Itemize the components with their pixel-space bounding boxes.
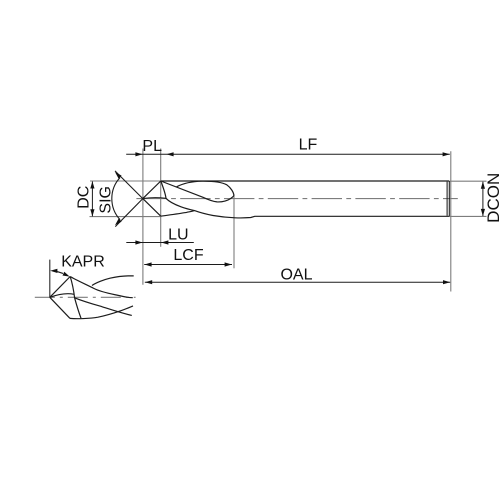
flute lobe top arc — [177, 181, 234, 195]
arrow SIG upper — [115, 172, 122, 179]
dimension DCON line — [482, 182, 484, 216]
arrow LU right-pointing — [135, 240, 142, 244]
detail flute face — [70, 277, 81, 319]
arrow KAPR right — [63, 272, 70, 277]
arrow OAL right-pointing — [443, 280, 450, 284]
arrow LCF left-pointing — [144, 262, 151, 266]
cone lower edge — [143, 199, 161, 217]
svg-text:LCF: LCF — [173, 247, 203, 264]
dimension PL/LF line — [126, 153, 450, 155]
KAPR leader dash — [57, 272, 63, 274]
SIG angle arc — [112, 178, 120, 220]
svg-text:LF: LF — [299, 137, 318, 154]
dimension DC line — [91, 182, 93, 217]
arrow OAL left-pointing — [145, 280, 152, 284]
extension line flute end x=234 — [233, 195, 235, 269]
cone upper edge — [143, 181, 161, 199]
extension line corner x=160.7 — [160, 149, 162, 247]
dimension OAL line — [145, 281, 450, 283]
svg-text:OAL: OAL — [280, 266, 312, 283]
centerline main — [136, 198, 457, 200]
detail cone upper edge — [50, 277, 70, 298]
detail lower flute edge — [75, 298, 132, 316]
detail lobe arc — [92, 276, 134, 286]
arrow LCF right-pointing — [225, 262, 232, 266]
svg-text:LU: LU — [168, 227, 188, 244]
arrow LF right-pointing — [443, 152, 450, 156]
flute helix edge — [161, 181, 234, 202]
detail cone lower edge — [50, 297, 70, 318]
arrow LF left-pointing — [166, 152, 173, 156]
arrow PL right-pointing — [135, 152, 142, 156]
detail centerline — [35, 296, 136, 298]
extension line right end x=450.8 — [450, 151, 452, 291]
extension line apex x=142.9 — [142, 149, 144, 285]
detail axis reference line — [49, 260, 51, 298]
dimension LU line — [126, 242, 194, 244]
arrow DCON down — [481, 209, 485, 216]
flute face edge — [161, 181, 195, 211]
drill end face — [447, 181, 449, 216]
svg-text:DCON: DCON — [484, 173, 500, 223]
extension line DCON top — [449, 180, 487, 182]
detail helix edge — [70, 277, 133, 298]
dimension LCF line — [144, 264, 232, 266]
extension line DC top — [90, 180, 161, 182]
arrow KAPR left — [50, 269, 57, 273]
arrow DC up — [90, 181, 94, 188]
svg-text:KAPR: KAPR — [61, 254, 105, 271]
extension line DCON bottom — [449, 215, 487, 217]
drill bottom edge flute waist and runout — [161, 211, 449, 218]
drill top edge — [161, 180, 449, 182]
extension line DC bottom — [90, 216, 161, 218]
detail bottom curve — [70, 306, 133, 319]
svg-text:PL: PL — [142, 138, 162, 155]
cone edge extension lower-left — [115, 199, 143, 227]
cone edge extension upper-left — [115, 171, 143, 199]
arrow SIG lower — [115, 219, 122, 226]
svg-text:DC: DC — [76, 186, 93, 209]
arrow LU left-pointing — [161, 240, 168, 244]
arrow DCON up — [481, 182, 485, 189]
detail lip curve — [50, 294, 74, 298]
chisel lip curve — [143, 197, 166, 200]
arrow DC down — [90, 209, 94, 216]
